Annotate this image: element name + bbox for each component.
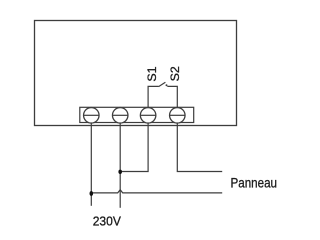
svg-text:S2: S2 xyxy=(170,66,182,81)
svg-text:230V: 230V xyxy=(93,215,122,229)
svg-text:S1: S1 xyxy=(147,66,159,81)
svg-text:Panneau: Panneau xyxy=(231,176,278,191)
